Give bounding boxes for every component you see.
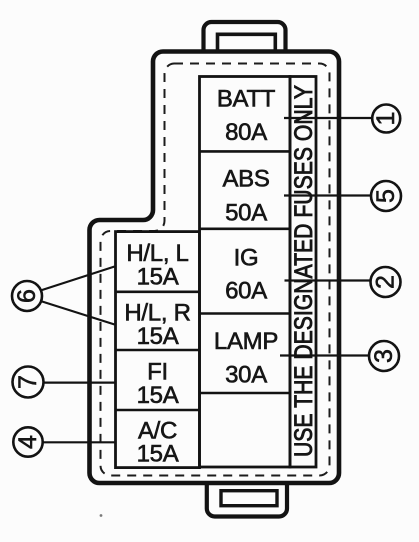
- inner dashed outline: [101, 64, 330, 476]
- svg-text:2: 2: [372, 275, 400, 289]
- svg-text:LAMP: LAMP: [214, 328, 278, 355]
- scan speck: [100, 514, 103, 517]
- row divider ABS/IG: [200, 228, 291, 231]
- leader line 6 upper: [41, 267, 115, 291]
- leader line to 2: [285, 279, 371, 281]
- divider H/L,L / H/L,R: [116, 290, 200, 293]
- callout circle 7: [13, 367, 44, 398]
- callout circle 2: [371, 267, 401, 297]
- leader line 6 lower: [41, 301, 115, 325]
- bottom tab inner: [221, 491, 277, 506]
- leader line to 3: [280, 354, 369, 356]
- leader line to 7: [43, 382, 116, 384]
- top tab inner: [218, 34, 276, 52]
- divider H/L,R / FI: [116, 349, 200, 352]
- vertical text column: [290, 77, 316, 468]
- svg-text:3: 3: [370, 349, 398, 363]
- svg-text:15A: 15A: [137, 323, 179, 350]
- svg-text:5: 5: [372, 189, 400, 203]
- svg-text:ABS: ABS: [222, 166, 269, 193]
- svg-text:7: 7: [14, 375, 42, 389]
- row divider LAMP/empty: [200, 392, 291, 395]
- svg-text:6: 6: [13, 289, 41, 303]
- callout circle 3: [369, 341, 399, 371]
- divider FI / A/C: [116, 409, 200, 412]
- row divider BATT/ABS: [200, 150, 291, 153]
- svg-text:30A: 30A: [225, 362, 267, 389]
- svg-text:60A: 60A: [225, 278, 267, 305]
- callout circle 1: [372, 105, 400, 133]
- svg-text:50A: 50A: [225, 200, 267, 227]
- svg-text:80A: 80A: [225, 119, 267, 146]
- left column: [116, 232, 200, 468]
- svg-text:15A: 15A: [137, 441, 179, 468]
- svg-text:1: 1: [372, 112, 400, 126]
- top tab outer: [204, 22, 286, 52]
- svg-text:15A: 15A: [137, 382, 179, 409]
- callout circle 6: [12, 281, 42, 311]
- svg-text:IG: IG: [234, 245, 259, 272]
- callout circle 5: [371, 181, 401, 211]
- leader line to 5: [284, 194, 371, 196]
- fuse box outer outline: [90, 52, 340, 484]
- svg-text:4: 4: [14, 435, 42, 449]
- svg-text:15A: 15A: [137, 264, 179, 291]
- table: main right column: [200, 77, 291, 468]
- svg-text:BATT: BATT: [217, 86, 276, 113]
- leader line to 1: [284, 117, 372, 119]
- callout circle 4: [13, 427, 42, 456]
- svg-text:USE THE DESIGNATED FUSES ONLY: USE THE DESIGNATED FUSES ONLY: [290, 85, 318, 457]
- row divider IG/LAMP: [200, 312, 291, 315]
- bottom tab outer: [207, 483, 287, 517]
- leader line to 4: [43, 441, 116, 443]
